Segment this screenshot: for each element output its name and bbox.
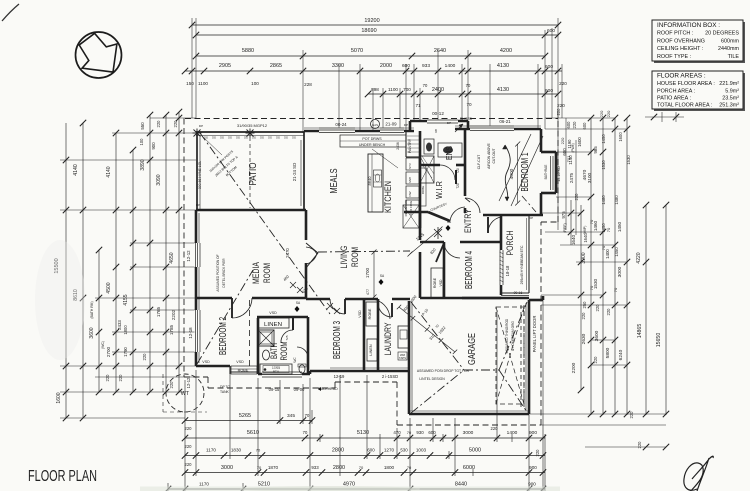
svg-text:(WIP): (WIP) <box>583 226 587 235</box>
svg-text:251.3m²: 251.3m² <box>719 103 739 109</box>
svg-text:LAUNDRY: LAUNDRY <box>383 323 393 356</box>
svg-text:DP TO: DP TO <box>220 385 231 389</box>
svg-text:228: 228 <box>304 82 312 87</box>
svg-text:933: 933 <box>311 465 319 470</box>
svg-text:220: 220 <box>185 444 193 449</box>
svg-text:00-24: 00-24 <box>335 122 347 127</box>
svg-text:220: 220 <box>185 426 193 431</box>
svg-text:09-15: 09-15 <box>269 387 280 392</box>
svg-text:4650: 4650 <box>169 252 175 263</box>
svg-text:220: 220 <box>142 353 147 361</box>
svg-text:2865: 2865 <box>270 63 282 69</box>
svg-text:20 DEGREES: 20 DEGREES <box>705 31 739 37</box>
svg-text:ENTRY: ENTRY <box>463 209 473 233</box>
svg-text:1450: 1450 <box>614 247 619 257</box>
svg-text:2433: 2433 <box>117 320 122 330</box>
svg-text:18-18: 18-18 <box>505 265 510 276</box>
svg-text:VSD: VSD <box>358 310 362 318</box>
svg-text:220: 220 <box>535 449 540 457</box>
svg-text:DP: DP <box>447 121 451 125</box>
svg-text:VSD: VSD <box>236 360 244 364</box>
svg-text:21-24 SD: 21-24 SD <box>292 163 297 182</box>
svg-text:BTH: BTH <box>273 370 279 374</box>
svg-text:CLF-CUT: CLF-CUT <box>477 155 481 170</box>
svg-text:100: 100 <box>139 138 144 146</box>
svg-text:PORCH AREA :: PORCH AREA : <box>657 88 695 94</box>
svg-text:3000: 3000 <box>221 465 233 471</box>
svg-text:220: 220 <box>606 110 611 117</box>
svg-text:555: 555 <box>268 137 273 140</box>
svg-text:220: 220 <box>595 304 600 312</box>
svg-text:720: 720 <box>456 168 460 174</box>
svg-text:REF SPACE: REF SPACE <box>404 200 408 217</box>
svg-text:3000: 3000 <box>617 266 623 277</box>
svg-text:530: 530 <box>400 448 408 453</box>
svg-text:600: 600 <box>566 121 571 129</box>
svg-text:2905: 2905 <box>219 63 231 69</box>
svg-text:725: 725 <box>285 335 289 340</box>
svg-text:1600: 1600 <box>577 137 582 147</box>
svg-text:1600: 1600 <box>56 392 62 403</box>
svg-text:2440mm: 2440mm <box>718 46 739 52</box>
svg-text:100: 100 <box>251 81 259 86</box>
svg-text:CEILING HEIGHT :: CEILING HEIGHT : <box>657 46 703 52</box>
svg-text:4500: 4500 <box>106 282 112 293</box>
svg-text:1480: 1480 <box>601 195 606 205</box>
svg-text:ENS: ENS <box>444 146 454 160</box>
svg-text:ROBE: ROBE <box>238 369 249 373</box>
svg-text:70: 70 <box>466 83 471 88</box>
svg-text:LIVING: LIVING <box>339 246 350 269</box>
svg-text:21-09: 21-09 <box>385 122 397 127</box>
svg-text:221.9m²: 221.9m² <box>719 81 739 87</box>
svg-text:220: 220 <box>599 110 604 117</box>
svg-text:19200: 19200 <box>364 18 379 24</box>
svg-text:2202: 2202 <box>171 309 176 320</box>
svg-text:555: 555 <box>292 137 297 140</box>
svg-text:DP: DP <box>196 203 200 207</box>
svg-text:(BATH RM): (BATH RM) <box>90 301 94 318</box>
svg-text:LINTEL DESIGN: LINTEL DESIGN <box>419 377 445 381</box>
svg-text:220: 220 <box>581 312 586 320</box>
svg-text:VB: VB <box>434 129 438 133</box>
svg-text:600: 600 <box>367 448 375 453</box>
svg-text:8640: 8640 <box>367 176 372 186</box>
svg-text:933: 933 <box>422 63 430 69</box>
svg-text:555: 555 <box>260 137 265 140</box>
svg-text:TANK: TANK <box>220 390 230 394</box>
svg-text:3300: 3300 <box>332 63 344 69</box>
svg-text:70: 70 <box>256 448 261 453</box>
svg-text:ASSUMED POSITION OF: ASSUMED POSITION OF <box>216 254 220 291</box>
svg-text:LINEN: LINEN <box>369 344 373 355</box>
svg-text:220: 220 <box>557 103 565 108</box>
svg-text:POT DRWS: POT DRWS <box>362 137 382 141</box>
svg-text:70: 70 <box>601 245 606 250</box>
svg-text:PATIO: PATIO <box>248 162 259 185</box>
svg-text:220: 220 <box>156 120 161 128</box>
svg-text:12-12: 12-12 <box>186 377 191 388</box>
svg-text:1480: 1480 <box>614 195 619 205</box>
svg-text:HOUSE FLOOR AREA :: HOUSE FLOOR AREA : <box>657 81 715 87</box>
svg-text:12-19: 12-19 <box>334 374 345 379</box>
svg-text:3890: 3890 <box>140 159 146 170</box>
svg-text:00-12: 00-12 <box>432 111 444 116</box>
svg-text:AIRCON ABOVE: AIRCON ABOVE <box>487 142 491 168</box>
svg-text:720: 720 <box>456 183 460 189</box>
svg-text:555: 555 <box>220 137 225 140</box>
svg-text:18690: 18690 <box>361 28 376 34</box>
svg-text:600: 600 <box>547 28 555 34</box>
svg-text:GAS: GAS <box>372 123 378 127</box>
svg-text:600: 600 <box>428 430 436 435</box>
svg-text:3900: 3900 <box>581 252 587 263</box>
svg-text:345: 345 <box>287 413 295 419</box>
svg-text:1765: 1765 <box>156 306 161 317</box>
svg-text:930: 930 <box>416 430 424 435</box>
svg-text:BL/SRD: BL/SRD <box>460 117 473 121</box>
svg-text:898: 898 <box>371 87 379 92</box>
svg-text:3090: 3090 <box>156 174 162 185</box>
svg-text:MW: MW <box>408 177 412 182</box>
svg-text:985: 985 <box>593 146 598 154</box>
svg-text:1100: 1100 <box>198 81 208 86</box>
svg-text:VSD: VSD <box>269 311 277 315</box>
svg-text:4220: 4220 <box>636 252 642 263</box>
svg-text:220: 220 <box>169 381 174 389</box>
svg-text:555: 555 <box>284 137 289 140</box>
svg-text:2200: 2200 <box>571 362 577 373</box>
svg-text:1450: 1450 <box>601 223 606 233</box>
svg-text:31/90/35 MGP12: 31/90/35 MGP12 <box>237 123 268 128</box>
svg-text:BULKHEAD: BULKHEAD <box>318 387 338 391</box>
svg-text:VSD: VSD <box>202 360 210 364</box>
svg-text:14865: 14865 <box>637 324 643 339</box>
svg-text:220: 220 <box>173 120 178 128</box>
svg-text:600mm: 600mm <box>721 38 739 44</box>
svg-text:1270: 1270 <box>384 448 395 453</box>
svg-text:150: 150 <box>186 81 194 86</box>
svg-text:BEDROOM 2: BEDROOM 2 <box>218 317 229 355</box>
svg-text:& HOMEBEAM ORG: & HOMEBEAM ORG <box>511 321 515 351</box>
svg-text:2630: 2630 <box>581 333 587 344</box>
svg-text:5000: 5000 <box>469 448 481 454</box>
svg-text:ROBE: ROBE <box>433 277 437 288</box>
svg-text:ROOM: ROOM <box>262 263 273 283</box>
svg-text:1100: 1100 <box>388 87 398 92</box>
svg-text:PATIO AREA :: PATIO AREA : <box>657 96 691 102</box>
svg-text:550: 550 <box>140 122 145 130</box>
svg-text:70: 70 <box>589 285 594 290</box>
svg-text:23.5m²: 23.5m² <box>722 96 739 102</box>
svg-text:BEDROOM 3: BEDROOM 3 <box>332 321 343 359</box>
svg-text:555: 555 <box>212 137 217 140</box>
svg-text:220: 220 <box>606 308 611 316</box>
svg-text:555: 555 <box>228 137 233 140</box>
svg-text:DP: DP <box>199 124 203 128</box>
svg-text:BATH: BATH <box>269 343 279 359</box>
svg-text:12-18: 12-18 <box>188 327 193 339</box>
svg-text:UNDER BENCH: UNDER BENCH <box>359 143 386 147</box>
svg-text:W.I.R: W.I.R <box>434 181 444 199</box>
svg-text:220: 220 <box>629 411 634 419</box>
svg-text:220: 220 <box>559 81 567 86</box>
svg-text:70: 70 <box>613 287 618 292</box>
svg-text:900: 900 <box>529 465 537 470</box>
svg-text:INFORMATION BOX :: INFORMATION BOX : <box>657 22 720 29</box>
svg-text:701: 701 <box>566 155 571 162</box>
svg-text:220: 220 <box>593 356 598 364</box>
svg-text:09-00: 09-00 <box>294 387 305 392</box>
svg-text:DP: DP <box>404 123 408 127</box>
svg-text:1400: 1400 <box>445 63 456 69</box>
svg-text:6240: 6240 <box>618 349 624 360</box>
svg-text:70: 70 <box>423 83 428 88</box>
svg-text:900: 900 <box>151 142 156 150</box>
svg-text:4130: 4130 <box>497 63 509 69</box>
svg-text:1640: 1640 <box>583 233 588 243</box>
svg-text:4200: 4200 <box>500 48 512 54</box>
svg-text:1600: 1600 <box>618 132 623 142</box>
svg-text:(REF): (REF) <box>563 223 567 233</box>
svg-text:MEALS: MEALS <box>329 168 340 193</box>
svg-text:ROOF TYPE :: ROOF TYPE : <box>657 54 691 60</box>
svg-text:DP: DP <box>529 216 533 220</box>
svg-text:2640: 2640 <box>434 48 446 54</box>
svg-text:ASSUMED THING/ROD: ASSUMED THING/ROD <box>505 318 509 353</box>
svg-text:2700: 2700 <box>106 346 111 357</box>
svg-text:1530: 1530 <box>601 160 606 170</box>
svg-text:70: 70 <box>257 465 262 470</box>
svg-text:ASSUMED POSt DROP TGT FOR: ASSUMED POSt DROP TGT FOR <box>417 369 470 373</box>
svg-text:300-66 HYNE LGL: 300-66 HYNE LGL <box>198 161 202 189</box>
svg-text:3000: 3000 <box>463 430 474 436</box>
svg-text:1450: 1450 <box>601 134 606 144</box>
svg-text:70: 70 <box>303 430 308 435</box>
svg-text:TAPS: TAPS <box>399 356 406 360</box>
svg-text:1530: 1530 <box>626 155 631 165</box>
svg-text:477: 477 <box>366 289 370 295</box>
svg-text:1785: 1785 <box>169 324 174 335</box>
svg-text:70: 70 <box>359 465 364 470</box>
svg-text:2800: 2800 <box>333 465 345 471</box>
svg-text:70: 70 <box>466 102 472 107</box>
svg-text:MEDIA: MEDIA <box>251 262 262 284</box>
svg-text:220: 220 <box>118 374 123 382</box>
svg-text:PORCH: PORCH <box>505 231 515 256</box>
svg-text:220: 220 <box>574 193 579 201</box>
svg-text:70: 70 <box>589 219 594 224</box>
svg-text:WC: WC <box>293 357 297 363</box>
svg-text:1170: 1170 <box>206 448 216 453</box>
svg-text:ROBE: ROBE <box>368 308 372 319</box>
svg-text:BEDROOM 1: BEDROOM 1 <box>520 152 531 191</box>
svg-text:555: 555 <box>252 137 257 140</box>
svg-text:ROOM: ROOM <box>350 247 361 267</box>
svg-text:ROOF PITCH :: ROOF PITCH : <box>657 31 693 37</box>
svg-text:12-12: 12-12 <box>186 250 191 262</box>
svg-text:06-21: 06-21 <box>499 119 511 124</box>
svg-text:900: 900 <box>528 482 536 487</box>
svg-text:5.9m²: 5.9m² <box>725 88 739 94</box>
svg-text:70: 70 <box>407 465 412 470</box>
svg-text:FLOOR AREAS :: FLOOR AREAS : <box>657 73 706 80</box>
svg-text:15650: 15650 <box>656 333 662 348</box>
svg-text:220: 220 <box>560 137 565 144</box>
svg-text:1870: 1870 <box>268 465 279 470</box>
svg-text:70: 70 <box>606 227 611 232</box>
svg-text:2000: 2000 <box>380 63 392 69</box>
svg-text:2470: 2470 <box>285 248 290 258</box>
svg-text:09-16: 09-16 <box>514 291 523 295</box>
svg-text:TOTAL FLOOR AREA :: TOTAL FLOOR AREA : <box>657 103 712 109</box>
svg-text:4140: 4140 <box>106 166 112 177</box>
svg-text:GARAGE: GARAGE <box>467 333 478 365</box>
svg-text:ROOM: ROOM <box>279 342 289 361</box>
svg-text:ROOF OVERHANG: ROOF OVERHANG <box>657 38 705 44</box>
svg-text:PANEL LIFT DOOR: PANEL LIFT DOOR <box>532 316 537 353</box>
svg-text:1450: 1450 <box>617 221 622 232</box>
svg-text:295x45 HYNEBEAM ETC: 295x45 HYNEBEAM ETC <box>520 245 524 284</box>
svg-text:4140: 4140 <box>73 164 79 176</box>
svg-text:CUT-OUT: CUT-OUT <box>492 148 496 163</box>
svg-text:700: 700 <box>403 87 411 92</box>
svg-text:250: 250 <box>582 301 587 309</box>
svg-text:1003: 1003 <box>416 448 427 453</box>
svg-text:600: 600 <box>582 122 587 130</box>
svg-text:70: 70 <box>305 413 310 418</box>
svg-text:5070: 5070 <box>351 48 363 54</box>
svg-text:PANTRY: PANTRY <box>408 138 412 153</box>
svg-text:2 i-15SD: 2 i-15SD <box>382 374 398 379</box>
svg-text:5265: 5265 <box>239 413 251 419</box>
svg-text:TILE: TILE <box>728 54 740 60</box>
svg-text:KITCHEN: KITCHEN <box>383 181 394 213</box>
svg-text:5610: 5610 <box>247 430 259 436</box>
svg-text:4670: 4670 <box>582 169 588 180</box>
svg-text:1170: 1170 <box>199 482 209 487</box>
svg-text:DETEL BRICK PIER: DETEL BRICK PIER <box>222 258 226 288</box>
svg-text:15-16 XO: 15-16 XO <box>557 166 561 182</box>
svg-text:220: 220 <box>105 374 110 382</box>
svg-text:1800: 1800 <box>123 325 128 335</box>
svg-text:DW: DW <box>408 191 412 196</box>
svg-text:1640: 1640 <box>571 234 576 245</box>
svg-text:900: 900 <box>529 430 537 436</box>
svg-text:1800: 1800 <box>384 465 395 470</box>
svg-text:1790: 1790 <box>123 347 128 357</box>
svg-text:4155: 4155 <box>123 294 129 305</box>
svg-text:1700: 1700 <box>365 267 370 278</box>
svg-text:VSD: VSD <box>439 279 443 287</box>
svg-text:220: 220 <box>185 462 193 467</box>
svg-text:555: 555 <box>236 137 241 140</box>
svg-text:(WC): (WC) <box>101 341 105 349</box>
svg-text:ROBE: ROBE <box>421 186 425 195</box>
svg-text:STV: STV <box>408 163 412 169</box>
svg-text:2800: 2800 <box>332 448 344 454</box>
svg-text:975: 975 <box>561 211 566 219</box>
svg-text:WT: WT <box>181 391 190 397</box>
svg-text:1830: 1830 <box>231 448 242 453</box>
svg-text:555: 555 <box>276 137 281 140</box>
svg-text:3600: 3600 <box>89 327 95 338</box>
svg-text:555: 555 <box>244 137 249 140</box>
svg-text:70: 70 <box>407 430 412 435</box>
svg-text:BEDROOM 4: BEDROOM 4 <box>464 251 475 289</box>
svg-text:BATHRAE: BATHRAE <box>544 165 548 180</box>
svg-text:220: 220 <box>572 121 577 129</box>
svg-text:3600: 3600 <box>594 330 600 341</box>
svg-text:1190: 1190 <box>567 139 572 149</box>
svg-text:LINEN: LINEN <box>264 322 282 328</box>
svg-text:2475: 2475 <box>569 172 574 183</box>
svg-text:220: 220 <box>556 108 561 116</box>
svg-text:5800: 5800 <box>605 347 611 358</box>
svg-text:5880: 5880 <box>242 48 254 54</box>
svg-text:2436: 2436 <box>396 142 400 150</box>
svg-text:4130: 4130 <box>497 87 509 93</box>
svg-text:FLOOR PLAN: FLOOR PLAN <box>28 468 97 485</box>
svg-text:220: 220 <box>637 441 642 449</box>
